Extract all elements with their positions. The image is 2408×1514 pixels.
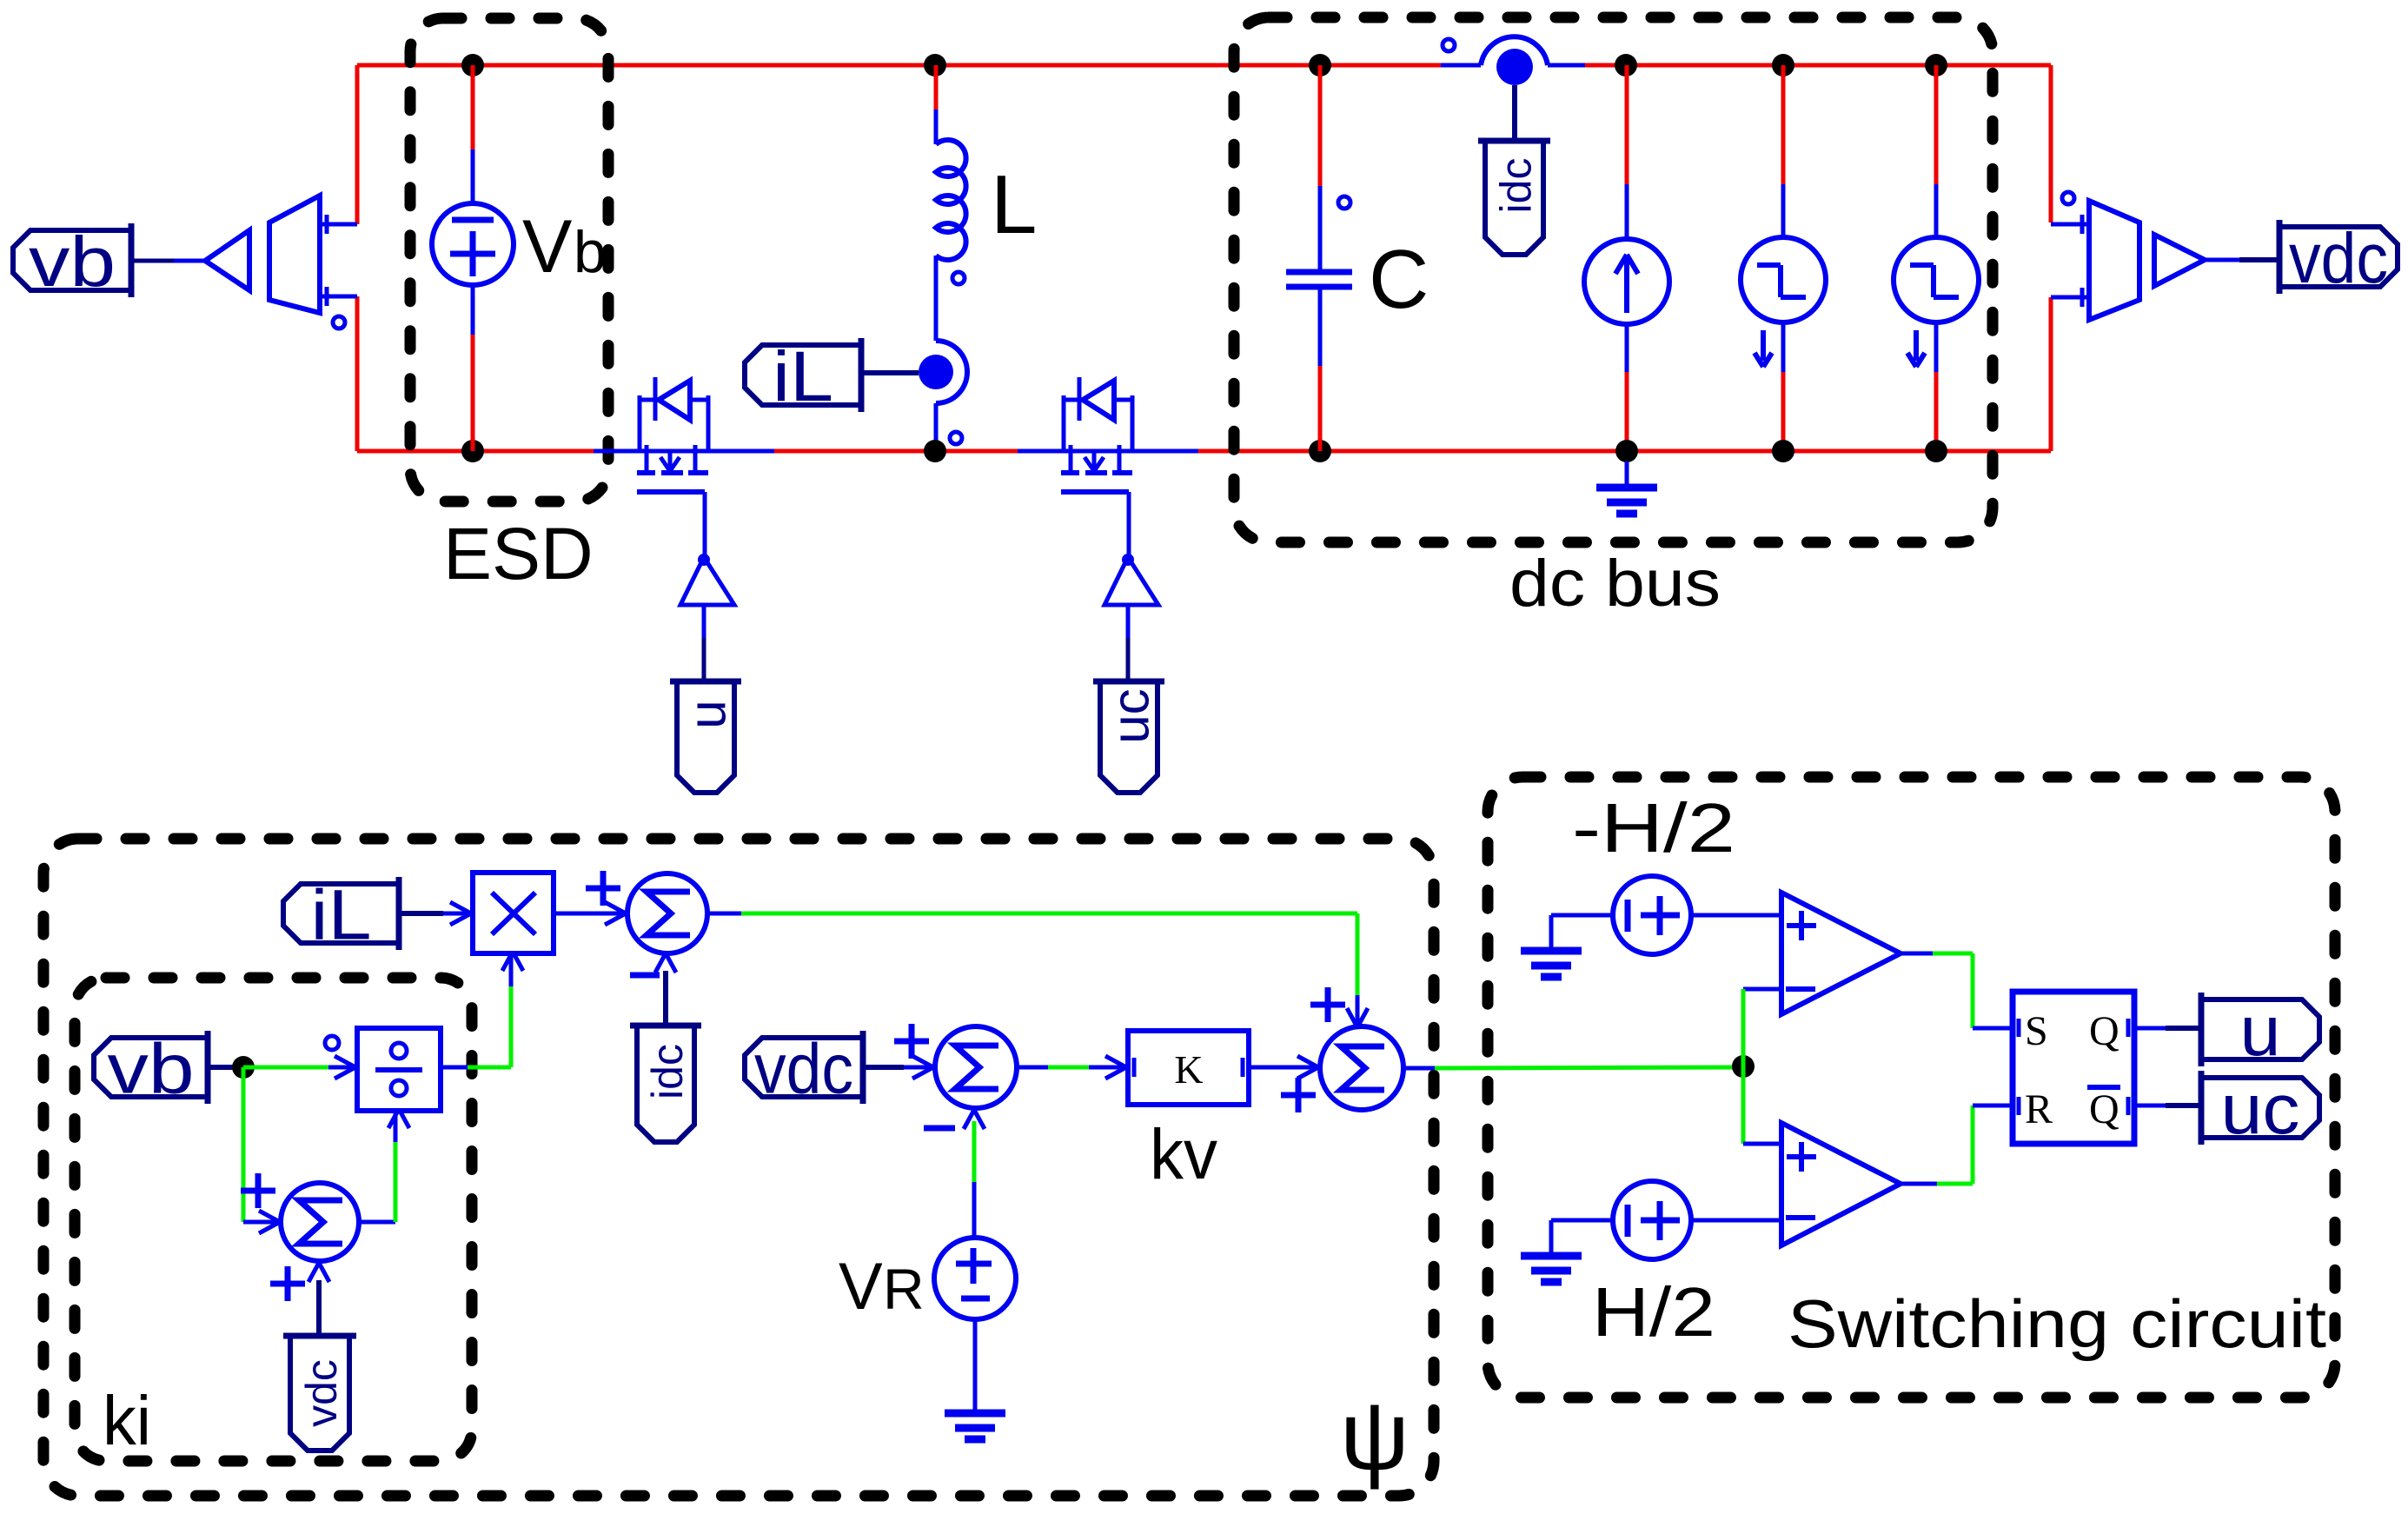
tag vdc (ki): [283, 1336, 356, 1451]
wire Q to u: [2133, 1026, 2201, 1031]
wire top dc+ rail (red): [357, 63, 2051, 68]
wire S1 out: [707, 913, 1368, 1027]
plus sign ki bottom: [270, 1266, 305, 1301]
svg-text:uc: uc: [2221, 1070, 2300, 1149]
voltmeter Vm1 (vb sense): [205, 196, 357, 329]
wire junction up: [1741, 989, 1746, 1066]
wire mult to S1: [554, 902, 627, 925]
tag u (output): [2201, 992, 2319, 1071]
node dcbus bottom3: [1925, 440, 1947, 462]
plus sign ki left: [241, 1173, 275, 1208]
svg-text:vb: vb: [108, 1030, 195, 1109]
label Vb: [522, 205, 607, 289]
svg-text:-H/2: -H/2: [1572, 789, 1735, 867]
svg-text:S: S: [2025, 1008, 2048, 1054]
node dcbus top3: [1925, 54, 1947, 76]
svg-text:R: R: [883, 1257, 925, 1321]
tag iL (control): [283, 876, 399, 955]
wire iL to multiplier: [399, 902, 473, 925]
label ESD: [443, 513, 594, 594]
tag vb (control): [94, 1030, 208, 1109]
svg-text:idc: idc: [643, 1044, 692, 1099]
tag idc (control): [630, 1026, 701, 1142]
tag vdc (control): [745, 1030, 863, 1109]
label ki: [103, 1382, 151, 1459]
gate driver Q1: [680, 554, 734, 679]
wire comp1 minus: [1743, 987, 1781, 992]
svg-text:R: R: [2025, 1086, 2053, 1132]
wire bottom dc- rail (red): [357, 449, 2051, 454]
ground dc bus: [1596, 462, 1657, 514]
SR flip-flop: [2013, 992, 2134, 1144]
node L top: [924, 54, 946, 76]
wire vb to junction: [208, 1065, 243, 1070]
divider ki (vb/vdc): [325, 1028, 441, 1128]
wire comp1 out: [1901, 953, 2012, 1028]
minus sign S2 bottom: [924, 1126, 955, 1132]
wire top rail ammeter segment (blue): [1441, 63, 1585, 68]
ammeter idc: [1443, 37, 1548, 139]
plus sign S3 left: [1281, 1078, 1316, 1112]
svg-text:u: u: [679, 700, 737, 728]
tag uc (output): [2201, 1070, 2319, 1149]
node ESD bottom: [461, 440, 484, 462]
plus sign S2 left: [894, 1024, 929, 1059]
summer ki: [281, 1183, 359, 1261]
dashed box ki: [75, 978, 472, 1461]
step current source I2: [1741, 65, 1826, 451]
svg-text:L: L: [991, 158, 1037, 251]
svg-text:idc: idc: [1492, 158, 1541, 214]
wire S3 out (psi): [1403, 1067, 1743, 1068]
svg-text:C: C: [1369, 233, 1429, 326]
svg-text:vdc: vdc: [297, 1359, 346, 1427]
label Switching circuit: [1788, 1285, 2326, 1362]
comparator U2: [1781, 1123, 1901, 1245]
ground VR: [945, 1413, 1005, 1439]
voltage source Vb: [432, 65, 514, 451]
transistor Q2 (MOSFET with body diode): [1018, 377, 1198, 557]
svg-text:kv: kv: [1150, 1115, 1217, 1194]
label psi: [1340, 1381, 1410, 1490]
current source I1: [1584, 65, 1669, 451]
ground H/2: [1521, 1256, 1582, 1282]
ground -H/2: [1521, 951, 1582, 977]
wire left vertical (red): [355, 65, 360, 451]
dashed box ESD: [410, 18, 608, 501]
wire vb down: [242, 1067, 246, 1222]
gain K (kv): [1128, 1031, 1249, 1105]
tag iL: [745, 337, 861, 416]
wire vdc to S2: [863, 1056, 935, 1079]
ammeter iL: [919, 341, 967, 451]
tag uc (gate Q2): [1093, 681, 1164, 793]
wire vdc to ki: [308, 1263, 329, 1336]
node ESD top: [461, 54, 484, 76]
wire ki out: [359, 1112, 395, 1222]
plus sign S1 left: [586, 871, 620, 906]
node dcbus bottom2: [1772, 440, 1794, 462]
wire vb signal: [131, 259, 205, 263]
node C top: [1309, 54, 1331, 76]
minus sign S1 bottom: [630, 973, 660, 979]
wire K to S3: [1249, 1056, 1320, 1079]
svg-text:K: K: [1174, 1047, 1203, 1092]
summer S1: [627, 873, 707, 953]
voltage source VR: [934, 1238, 1016, 1414]
label L: [991, 158, 1037, 251]
wire VR to S2: [964, 1110, 985, 1239]
node dcbus top2: [1772, 54, 1794, 76]
dashed box psi: [43, 839, 1434, 1496]
gate driver Q2: [1104, 554, 1158, 679]
tag u (gate Q1): [670, 681, 741, 793]
label kv: [1150, 1115, 1217, 1194]
inductor L: [936, 65, 966, 341]
tag idc (meter): [1478, 141, 1550, 255]
svg-text:uc: uc: [1102, 688, 1160, 743]
transistor Q1 (MOSFET with body diode): [594, 377, 774, 557]
wire Qbar to uc: [2133, 1104, 2201, 1108]
node L bottom: [924, 440, 946, 462]
svg-text:Switching circuit: Switching circuit: [1788, 1285, 2326, 1362]
wire comp2 out: [1901, 1106, 2012, 1184]
svg-text:vdc: vdc: [754, 1030, 853, 1109]
dashed box switching: [1488, 777, 2335, 1398]
capacitor C: [1286, 65, 1352, 451]
label -H/2: [1572, 789, 1735, 867]
summer S2: [935, 1026, 1017, 1108]
svg-text:vb: vb: [29, 222, 116, 302]
label dc bus: [1509, 547, 1721, 621]
svg-text:Q: Q: [2089, 1086, 2119, 1132]
svg-text:u: u: [2240, 992, 2281, 1071]
voltage source -H/2: [1551, 876, 1781, 954]
wire junction down: [1741, 1066, 1746, 1144]
tag vdc (meter out): [2279, 219, 2398, 298]
wire right vertical (red): [2049, 65, 2053, 451]
step current source I3: [1894, 65, 1979, 451]
svg-text:iL: iL: [773, 337, 833, 416]
node vb junction: [232, 1056, 357, 1079]
wire comp2 plus: [1743, 1142, 1781, 1146]
svg-text:dc bus: dc bus: [1509, 547, 1721, 621]
multiplier (iL*psi1): [473, 873, 554, 971]
label C: [1369, 233, 1429, 326]
node dcbus top1: [1615, 54, 1637, 76]
wire idc to S1: [655, 953, 676, 1026]
svg-text:ESD: ESD: [443, 513, 594, 594]
plus sign S3 top: [1310, 987, 1345, 1022]
wire iL signal: [861, 370, 919, 375]
svg-text:vdc: vdc: [2289, 219, 2388, 298]
comparator U1: [1781, 893, 1901, 1014]
svg-text:H/2: H/2: [1592, 1273, 1715, 1351]
wire div to mult: [441, 955, 511, 1067]
wire S2 to K: [1017, 1056, 1128, 1079]
voltage source H/2: [1551, 1181, 1781, 1259]
svg-text:ψ: ψ: [1340, 1381, 1410, 1490]
svg-text:iL: iL: [311, 876, 372, 955]
dashed box dc bus: [1234, 17, 1993, 542]
wire into ki summer: [243, 1211, 280, 1233]
node C bottom: [1309, 440, 1331, 462]
tag vb: [13, 222, 131, 302]
voltmeter Vm2 (vdc sense): [2051, 192, 2279, 320]
svg-text:V: V: [522, 205, 572, 289]
svg-text:ki: ki: [103, 1382, 151, 1459]
label VR: [839, 1250, 925, 1324]
node dcbus bottom1: [1615, 440, 1638, 462]
summer S3: [1320, 1026, 1403, 1110]
label H/2: [1592, 1273, 1715, 1351]
svg-text:b: b: [574, 219, 607, 285]
node psi junction: [1732, 1055, 1755, 1078]
svg-text:Q: Q: [2089, 1008, 2119, 1054]
svg-text:V: V: [839, 1250, 883, 1324]
